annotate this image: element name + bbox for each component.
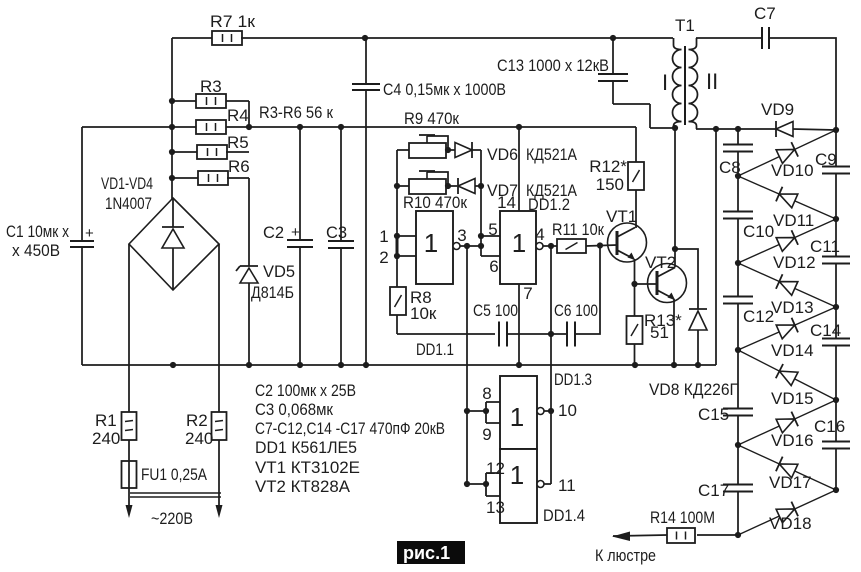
label C13 value — [497, 56, 609, 75]
svg-text:T1: T1 — [675, 16, 695, 35]
resistor R14 — [667, 528, 695, 543]
capacitor C5 — [499, 322, 507, 347]
svg-text:C17: C17 — [698, 481, 729, 500]
capacitor C12 — [723, 263, 753, 350]
label VD7 — [487, 181, 518, 200]
resistor R12 — [628, 162, 644, 190]
node: DD1.3 input branch — [464, 408, 470, 414]
pin 11 output bubble — [537, 481, 551, 488]
svg-text:DD1.1: DD1.1 — [416, 340, 454, 359]
pin 1 number — [379, 227, 388, 246]
capacitor C3 — [328, 127, 354, 365]
wire: R12 to VT1 collector — [635, 190, 637, 228]
resistor R1 — [122, 412, 137, 440]
capacitor C4 — [352, 38, 380, 365]
pin 5 number — [488, 220, 497, 239]
node: out3 branch down — [464, 243, 470, 249]
node: C6 top at base — [597, 242, 603, 248]
resistor R7 — [212, 31, 242, 45]
node: left col 2 — [735, 260, 741, 266]
capacitor C14 — [822, 307, 850, 400]
svg-text:1: 1 — [379, 227, 388, 246]
pin 8 number — [482, 384, 491, 403]
label VD7 type KD521A — [526, 181, 578, 200]
label VD15 — [771, 389, 814, 408]
svg-text:150: 150 — [596, 175, 624, 194]
node: R6 left — [169, 175, 175, 181]
svg-text:C3: C3 — [326, 224, 347, 242]
node: C13 top junction — [610, 35, 616, 41]
svg-text:10: 10 — [558, 401, 577, 420]
wire: diagonal for VD12 — [738, 219, 836, 263]
svg-text:C9: C9 — [815, 150, 837, 169]
wire: diagonal for VD11 — [738, 176, 836, 219]
wire: C6 to base node corner — [575, 246, 600, 334]
svg-text:VD11: VD11 — [773, 211, 814, 230]
node: VD8 on bus — [695, 362, 701, 368]
svg-text:C15: C15 — [698, 405, 729, 424]
node: left col 3 — [735, 347, 741, 353]
gate DD1.3 — [500, 376, 537, 449]
capacitor C1 electrolytic — [70, 127, 94, 365]
transformer T1 primary winding I — [673, 38, 682, 128]
node: zener/R bank right — [246, 124, 252, 130]
label R8 10k — [410, 288, 437, 323]
svg-text:C14: C14 — [810, 321, 841, 340]
svg-text:C10: C10 — [743, 222, 774, 241]
mains arrow right — [216, 505, 223, 518]
label R7 1k — [210, 12, 256, 31]
capacitor C10 — [723, 176, 753, 263]
wire: diagonal for VD15 — [738, 350, 836, 400]
pin 14 wire to rail — [518, 127, 520, 211]
svg-text:C6 100: C6 100 — [554, 301, 598, 320]
label VD16 — [771, 431, 814, 450]
label VD1-VD4 1N4007 — [101, 175, 153, 213]
label VT2 — [645, 253, 676, 272]
svg-text:R4: R4 — [227, 106, 249, 125]
svg-text:VT2 КТ828А: VT2 КТ828А — [255, 477, 351, 496]
wire: out3 down to DD1.3/DD1.4 inputs — [466, 246, 468, 484]
wire: timing lower wire R8-C5 — [397, 333, 495, 335]
node: right col 4 — [833, 487, 839, 493]
label R4 — [227, 106, 249, 125]
node: C2 on bus — [297, 362, 303, 368]
label VD10 — [771, 161, 814, 180]
pin 3 number — [457, 226, 466, 245]
capacitor C17 — [723, 445, 753, 535]
wire: out4 to R11 — [543, 245, 557, 247]
node: rail left junction — [169, 124, 175, 130]
label DD1.4 — [543, 506, 585, 525]
svg-text:10к: 10к — [410, 304, 437, 323]
label R6 — [228, 157, 250, 176]
wire: R2 to mains arrow right — [218, 440, 220, 508]
label D814B — [251, 284, 294, 302]
label C7 — [754, 4, 776, 23]
wire: +9V rail left segment to C1 — [82, 126, 196, 128]
capacitor C16 — [822, 400, 850, 490]
capacitor C9 — [822, 130, 850, 219]
svg-text:R3: R3 — [200, 77, 222, 96]
svg-text:VD18: VD18 — [769, 514, 812, 533]
node: bridge minus on bus — [170, 362, 176, 368]
node: right col 3 — [833, 397, 839, 403]
pin 2 stub — [397, 255, 416, 257]
svg-text:VT2: VT2 — [645, 253, 676, 272]
svg-text:C3 0,068мк: C3 0,068мк — [255, 400, 333, 419]
label C16 — [814, 417, 845, 436]
pin 12 number — [486, 459, 505, 478]
label C10 — [743, 222, 774, 241]
node: out4 vertical on timing wire — [548, 331, 554, 337]
label R11 10k — [552, 220, 604, 239]
node: VD7 right — [478, 183, 484, 189]
pin 7 wire to ground bus — [518, 284, 520, 365]
diode VD8 — [689, 309, 707, 365]
wire: diagonal for VD17 — [738, 445, 836, 490]
node: right col 1 — [833, 216, 839, 222]
svg-text:1N4007: 1N4007 — [105, 195, 152, 213]
resistor R3 — [172, 94, 249, 127]
wire: top rail from node A to R7 — [172, 37, 213, 39]
svg-text:8: 8 — [482, 384, 491, 403]
svg-text:~220В: ~220В — [151, 509, 193, 528]
wire: bridge AC right to R2 — [218, 244, 220, 412]
svg-text:1: 1 — [424, 228, 438, 258]
diode VD9 — [776, 121, 836, 137]
svg-text:+: + — [85, 225, 94, 242]
wire: R11 to VT1 base — [586, 245, 617, 246]
svg-text:К люстре: К люстре — [595, 546, 656, 565]
node: VD5 on bus — [246, 362, 252, 368]
capacitor C13 — [598, 38, 674, 128]
node: C2 rail — [297, 124, 303, 130]
node: left col 1 — [735, 173, 741, 179]
wire: diagonal for VD16 — [738, 400, 836, 445]
pin 7 number — [523, 284, 532, 303]
label R13* 51 — [644, 311, 682, 342]
label R9 470k — [404, 109, 459, 128]
wire: bridge AC left to R1 — [128, 244, 130, 412]
svg-text:VD6: VD6 — [487, 145, 518, 164]
wire: DD1.1 input left vertical — [396, 150, 398, 288]
label VD14 — [771, 341, 814, 360]
wire: ground return vertical — [715, 129, 717, 365]
trimmer R9 — [397, 135, 455, 158]
node: R5 left — [169, 149, 175, 155]
diode VD15 — [776, 364, 798, 386]
wire: VT2 emitter to bus — [673, 299, 675, 365]
label VT1 — [606, 207, 637, 226]
node: primary bottom — [672, 125, 678, 131]
svg-text:C13 1000 x 12кВ: C13 1000 x 12кВ — [497, 56, 609, 75]
svg-text:VD12: VD12 — [773, 253, 816, 272]
zener VD5 — [236, 178, 258, 365]
pin 9 number — [482, 425, 491, 444]
svg-text:VT1 КТ3102Е: VT1 КТ3102Е — [255, 458, 360, 477]
label R3 — [200, 77, 222, 96]
label C2 plus — [263, 224, 300, 242]
svg-text:R5: R5 — [227, 133, 249, 152]
mains arrow left — [126, 505, 133, 518]
svg-text:x 450В: x 450В — [12, 242, 60, 260]
node: C4 on bus — [363, 362, 369, 368]
capacitor C8 — [723, 129, 753, 176]
diode VD10 — [776, 142, 798, 164]
figure caption ris.1 — [397, 541, 465, 564]
capacitor C15 — [723, 350, 753, 445]
svg-text:14: 14 — [497, 193, 516, 212]
svg-text:1: 1 — [512, 228, 526, 258]
node: C4 top junction — [362, 35, 368, 41]
svg-text:FU1 0,25A: FU1 0,25A — [141, 465, 208, 484]
wire: diagonal for VD18 — [738, 490, 836, 535]
pin 13 number — [486, 498, 505, 517]
pin 2 number — [379, 248, 388, 267]
node: R3 left — [169, 98, 175, 104]
label C14 — [810, 321, 841, 340]
label C1 value — [6, 223, 70, 260]
diode VD7 — [458, 178, 481, 194]
label C17 — [698, 481, 729, 500]
label DD1.2 — [528, 195, 570, 214]
node: VT2 emitter on bus — [671, 362, 677, 368]
label C1 plus — [85, 225, 94, 242]
gate DD1.4 — [500, 449, 537, 523]
svg-text:C12: C12 — [743, 307, 774, 326]
wire: R13 to bus — [634, 344, 636, 365]
transistor VT1 — [608, 223, 647, 262]
svg-text:DD1.4: DD1.4 — [543, 506, 585, 525]
node: C8 top — [735, 126, 741, 132]
wire: output node to R14 — [697, 534, 738, 536]
pin 13 stub — [486, 495, 500, 497]
svg-text:DD1.2: DD1.2 — [528, 195, 570, 214]
svg-text:4: 4 — [535, 225, 544, 244]
pin 9 stub — [486, 422, 500, 424]
node: multiplier right top — [833, 127, 839, 133]
svg-text:6: 6 — [489, 257, 498, 276]
wire: diagonal for VD14 — [738, 307, 836, 350]
svg-text:VD9: VD9 — [761, 100, 794, 119]
svg-text:C7-C12,C14 -C17 470пФ 20кВ: C7-C12,C14 -C17 470пФ 20кВ — [255, 419, 445, 438]
svg-text:R9 470к: R9 470к — [404, 109, 459, 128]
svg-text:13: 13 — [486, 498, 505, 517]
svg-text:R2: R2 — [186, 411, 208, 430]
pin 6 number — [489, 257, 498, 276]
label C8 — [719, 158, 741, 177]
svg-text:R7 1к: R7 1к — [210, 12, 256, 31]
pin 4 number — [535, 225, 544, 244]
ground bus bottom — [82, 364, 716, 366]
svg-text:C1 10мк x: C1 10мк x — [6, 223, 70, 241]
label VD6 — [487, 145, 518, 164]
label C5 100 — [473, 301, 518, 320]
pin 14 number — [497, 193, 516, 212]
svg-text:5: 5 — [488, 220, 497, 239]
diode VD11 — [776, 187, 798, 208]
svg-text:R6: R6 — [228, 157, 250, 176]
pin 4 output bubble — [536, 243, 543, 250]
capacitor C2 electrolytic — [287, 127, 313, 365]
diode VD16 — [776, 412, 798, 434]
svg-text:2: 2 — [379, 248, 388, 267]
resistor R2 — [212, 412, 227, 440]
label R14 100M — [650, 508, 715, 527]
svg-text:II: II — [706, 69, 718, 94]
diode VD12 — [776, 230, 798, 252]
wire: to pins 8-9 bar — [467, 402, 489, 423]
wire: rail corner down to R12 — [635, 127, 637, 162]
label VD8 KD226G — [649, 380, 738, 399]
node: out3 to tie bar — [478, 243, 484, 249]
svg-text:VD16: VD16 — [771, 431, 814, 450]
svg-text:R1: R1 — [95, 411, 117, 430]
svg-text:VT1: VT1 — [606, 207, 637, 226]
mains cord double line — [130, 493, 221, 497]
wire: diagonal for VD10 — [738, 130, 836, 176]
capacitor C11 — [822, 219, 850, 307]
label R2 240 — [185, 411, 213, 448]
svg-text:7: 7 — [523, 284, 532, 303]
resistor R6 — [172, 171, 249, 185]
pin 10 number — [558, 401, 577, 420]
node: DD1 pin7 on bus — [516, 362, 522, 368]
svg-text:DD1 К561ЛЕ5: DD1 К561ЛЕ5 — [255, 438, 357, 457]
wire: fuse to mains arrow left — [128, 488, 130, 508]
label ~220V — [151, 509, 193, 528]
label R10 470k — [403, 193, 467, 212]
svg-text:VD15: VD15 — [771, 389, 814, 408]
svg-text:КД521А: КД521А — [526, 145, 578, 164]
svg-text:240: 240 — [185, 429, 213, 448]
svg-text:VD8 КД226Г: VD8 КД226Г — [649, 380, 738, 399]
svg-text:VD1-VD4: VD1-VD4 — [101, 175, 153, 193]
wire: secondary bottom to multiplier — [696, 128, 776, 130]
svg-text:C7: C7 — [754, 4, 776, 23]
wire: out3 to DD1.2 inputs — [460, 245, 481, 247]
wire: C7 to right edge down — [769, 38, 836, 130]
pin 1 stub — [397, 235, 416, 237]
bridge rectifier VD1-VD4 diamond — [129, 198, 219, 290]
diode VD17 — [776, 457, 798, 479]
svg-text:R14 100М: R14 100М — [650, 508, 715, 527]
label VD18 — [769, 514, 812, 533]
node: C3 rail — [338, 124, 344, 130]
wire: R14 to chandelier arrow — [613, 535, 667, 536]
wire: to VT2 base — [635, 283, 658, 285]
label C12 — [743, 307, 774, 326]
wire: VT1 emitter down — [634, 259, 636, 284]
capacitor C7 — [762, 27, 769, 49]
label DD1.3 — [554, 370, 592, 389]
label VD13 — [771, 298, 814, 317]
wire: node A vertical (bridge + output) — [171, 38, 173, 199]
svg-text:VD13: VD13 — [771, 298, 814, 317]
capacitor C6 — [567, 322, 575, 347]
node: R10 row on left vertical — [394, 183, 400, 189]
node: VT1 emitter / VT2 base — [631, 281, 637, 287]
label winding II — [706, 69, 718, 94]
label T1 — [675, 16, 695, 35]
node: ground return branch — [713, 126, 719, 132]
wire: diagonal for VD13 — [738, 263, 836, 307]
label C6 100 — [554, 301, 598, 320]
svg-text:9: 9 — [482, 425, 491, 444]
node: VD8 branch — [672, 246, 678, 252]
svg-text:C2: C2 — [263, 224, 284, 242]
svg-text:R10 470к: R10 470к — [403, 193, 467, 212]
pin 12 stub — [486, 472, 500, 474]
label winding I — [662, 70, 668, 95]
node: right col 2 — [833, 304, 839, 310]
resistor R13 — [627, 316, 643, 344]
bridge inner diode — [162, 198, 184, 290]
diode VD18 — [776, 502, 798, 524]
svg-text:DD1.3: DD1.3 — [554, 370, 592, 389]
label VD5 — [263, 263, 295, 281]
transformer T1 core — [684, 46, 686, 125]
diode VD6 — [455, 142, 481, 158]
svg-text:51: 51 — [650, 323, 669, 342]
svg-text:R3-R6 56 к: R3-R6 56 к — [259, 103, 333, 122]
label DD1.1 — [416, 340, 454, 359]
label R5 — [227, 133, 249, 152]
node: DD1.4 input branch — [464, 481, 470, 487]
wire: collector branch to VD8 — [675, 249, 698, 309]
node: DD1 pin14 rail — [516, 124, 522, 130]
svg-text:12: 12 — [486, 459, 505, 478]
pin 6 stub — [481, 255, 500, 257]
fuse FU1 — [122, 440, 137, 488]
svg-text:рис.1: рис.1 — [403, 543, 450, 563]
label C9 — [815, 150, 837, 169]
svg-text:VD14: VD14 — [771, 341, 814, 360]
svg-text:C16: C16 — [814, 417, 845, 436]
svg-text:+: + — [291, 224, 300, 241]
svg-text:R11 10к: R11 10к — [552, 220, 604, 239]
label C3 — [326, 224, 347, 242]
op-amp U gate DD1.1 — [416, 211, 453, 284]
node: left col bottom / R14 — [735, 532, 741, 538]
pin 8 stub — [486, 401, 500, 403]
resistor R5 — [172, 145, 249, 159]
label VD12 — [773, 253, 816, 272]
pin 11 number — [558, 476, 576, 495]
svg-text:C5 100: C5 100 — [473, 301, 518, 320]
label R3-R6 56k — [259, 103, 333, 122]
label C4 value — [383, 80, 506, 99]
pin 3 output bubble — [453, 243, 460, 250]
label R12* 150 — [589, 157, 627, 194]
resistor R4 in +9V rail — [196, 120, 226, 134]
node: R13 on bus — [632, 362, 638, 368]
label VD11 — [773, 211, 814, 230]
svg-text:C2 100мк x 25В: C2 100мк x 25В — [255, 381, 356, 400]
svg-text:C4 0,15мк x 1000В: C4 0,15мк x 1000В — [383, 80, 506, 99]
svg-text:I: I — [662, 70, 668, 95]
component value list — [255, 381, 445, 496]
svg-text:VD5: VD5 — [263, 263, 295, 281]
label K lyustre — [595, 546, 656, 565]
node: R10 wiper tie — [445, 183, 451, 189]
svg-text:1: 1 — [510, 402, 524, 432]
resistor R11 — [557, 239, 586, 253]
label FU1 0,25A — [141, 465, 208, 484]
wire: to pins 12-13 bar — [467, 473, 489, 496]
svg-text:R12*: R12* — [589, 157, 627, 176]
